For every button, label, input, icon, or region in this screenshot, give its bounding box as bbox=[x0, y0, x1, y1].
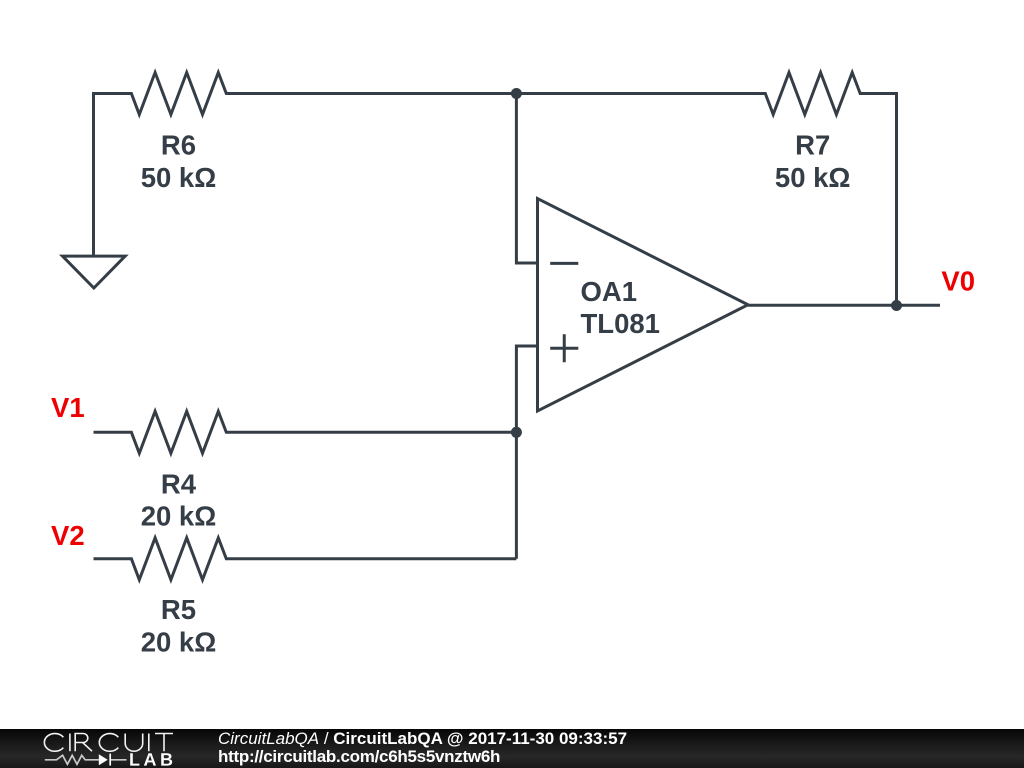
svg-text:50 kΩ: 50 kΩ bbox=[141, 162, 217, 193]
svg-text:OA1: OA1 bbox=[581, 276, 638, 307]
svg-text:20 kΩ: 20 kΩ bbox=[141, 626, 217, 657]
svg-text:V2: V2 bbox=[51, 520, 85, 551]
svg-text:R5: R5 bbox=[161, 594, 196, 625]
svg-text:V0: V0 bbox=[941, 266, 975, 297]
svg-text:R7: R7 bbox=[795, 129, 830, 160]
svg-text:V1: V1 bbox=[51, 392, 85, 423]
svg-text:R6: R6 bbox=[161, 129, 196, 160]
svg-text:20 kΩ: 20 kΩ bbox=[141, 501, 217, 532]
svg-text:R4: R4 bbox=[161, 468, 197, 499]
svg-text:50 kΩ: 50 kΩ bbox=[775, 162, 851, 193]
svg-text:TL081: TL081 bbox=[581, 308, 660, 339]
